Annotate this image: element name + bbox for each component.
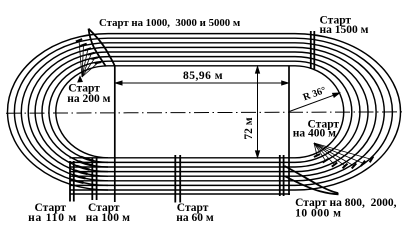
svg-text:на 100 м: на 100 м [86, 212, 130, 224]
svg-text:на 60 м: на 60 м [176, 212, 214, 224]
svg-text:на 110 м: на 110 м [28, 212, 77, 224]
svg-text:72 м: 72 м [243, 117, 255, 139]
svg-text:на 400 м: на 400 м [293, 127, 336, 139]
svg-text:85,96 м: 85,96 м [183, 70, 223, 82]
svg-text:на 1500 м: на 1500 м [320, 24, 369, 36]
svg-text:Старт на 1000, 3000 и 5000 м: Старт на 1000, 3000 и 5000 м [99, 17, 241, 29]
svg-text:на 200 м: на 200 м [67, 93, 110, 105]
svg-text:10 000 м: 10 000 м [295, 207, 341, 219]
